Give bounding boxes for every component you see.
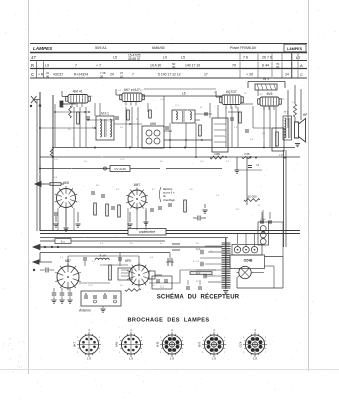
- svg-text:6 44: 6 44: [262, 64, 269, 68]
- svg-text:10: 10: [120, 75, 124, 79]
- svg-text:chauffage: chauffage: [163, 198, 175, 202]
- svg-text:24: 24: [110, 73, 114, 77]
- svg-text:45 68 47: 45 68 47: [128, 57, 141, 61]
- svg-text:L9: L9: [45, 64, 49, 68]
- svg-text:L6: L6: [182, 92, 186, 96]
- svg-text:43C37: 43C37: [53, 73, 63, 77]
- svg-text:100t: 100t: [214, 152, 220, 156]
- svg-text:OZ4B: OZ4B: [244, 259, 253, 263]
- svg-text:6Q7GT: 6Q7GT: [226, 90, 237, 94]
- svg-text:1 8: 1 8: [212, 357, 216, 361]
- svg-text:+ R: + R: [38, 73, 44, 77]
- svg-text:1 8: 1 8: [253, 357, 257, 361]
- svg-text:C 12: C 12: [88, 285, 93, 287]
- svg-text:A: A: [300, 63, 303, 68]
- svg-text:LAMPES: LAMPES: [287, 47, 303, 51]
- svg-text:SCHÉMA DU RÉCEPTEUR: SCHÉMA DU RÉCEPTEUR: [157, 293, 240, 301]
- svg-text:L5: L5: [181, 56, 185, 60]
- svg-text:LAMPES: LAMPES: [33, 46, 53, 51]
- svg-text:0,1: 0,1: [160, 286, 164, 289]
- svg-text:7: 7: [75, 64, 77, 68]
- svg-text:C: C: [300, 72, 303, 77]
- svg-text:26 7 6: 26 7 6: [262, 56, 272, 60]
- svg-text:1 8: 1 8: [87, 357, 91, 361]
- svg-text:509 A1: 509 A1: [95, 46, 107, 50]
- svg-text:1 8: 1 8: [170, 357, 174, 361]
- svg-text:L9: L9: [163, 56, 167, 60]
- svg-text:R+243X4: R+243X4: [74, 73, 88, 77]
- svg-text:BROCHAGE DES LAMPES: BROCHAGE DES LAMPES: [127, 318, 209, 324]
- svg-text:6H8: 6H8: [156, 341, 160, 347]
- svg-text:T 3: T 3: [284, 111, 289, 115]
- svg-text:6P9: 6P9: [125, 259, 131, 263]
- svg-text:+ 20: + 20: [246, 73, 253, 77]
- svg-text:6K7 et 6J7: 6K7 et 6J7: [124, 88, 140, 92]
- svg-text:6M 41: 6M 41: [73, 90, 82, 94]
- svg-text:W 1: W 1: [263, 77, 269, 81]
- svg-text:+: +: [193, 259, 195, 263]
- svg-text:10 A 30: 10 A 30: [150, 64, 161, 68]
- svg-text:C 12: C 12: [234, 127, 239, 129]
- svg-text:5 140 17 12 12: 5 140 17 12 12: [158, 73, 181, 77]
- svg-text:6H8: 6H8: [150, 122, 156, 126]
- svg-text:Poste FR/M6 AV: Poste FR/M6 AV: [230, 46, 257, 50]
- svg-text:30: 30: [276, 65, 280, 69]
- svg-text:CV 2x46: CV 2x46: [114, 167, 126, 171]
- svg-text:C: C: [31, 72, 34, 77]
- svg-text:17: 17: [204, 73, 208, 77]
- svg-text:L5: L5: [113, 56, 117, 60]
- svg-text:6 v.: 6 v.: [61, 240, 66, 244]
- svg-text:M.F.1: M.F.1: [101, 112, 109, 116]
- svg-text:C 12: C 12: [286, 119, 291, 121]
- svg-text:6N7: 6N7: [198, 341, 202, 347]
- svg-text:du: du: [163, 194, 166, 198]
- svg-text:accus 6 v.: accus 6 v.: [163, 191, 175, 195]
- svg-text:70: 70: [232, 64, 236, 68]
- svg-text:L7: L7: [296, 55, 301, 60]
- svg-text:C 12: C 12: [258, 94, 263, 96]
- svg-text:6M7: 6M7: [134, 183, 141, 187]
- svg-text:6A8: 6A8: [115, 342, 119, 348]
- svg-text:30: 30: [172, 65, 176, 69]
- svg-text:2 W: 2 W: [279, 153, 284, 157]
- svg-text:8μF: 8μF: [196, 272, 201, 275]
- svg-text:HP: HP: [303, 113, 307, 117]
- svg-text:R: R: [31, 63, 34, 68]
- svg-text:140 17 10: 140 17 10: [185, 64, 200, 68]
- svg-text:+ 7: + 7: [96, 64, 101, 68]
- svg-text:OZ4: OZ4: [239, 341, 243, 347]
- svg-text:6M6/65: 6M6/65: [152, 46, 165, 50]
- svg-text:Antenne: Antenne: [78, 309, 91, 313]
- svg-text:15.000: 15.000: [247, 195, 257, 199]
- svg-text:6V6: 6V6: [267, 92, 273, 96]
- svg-text:F.68: F.68: [245, 152, 250, 156]
- svg-text:6K7: 6K7: [73, 342, 77, 348]
- svg-text:ondemetre: ondemetre: [139, 230, 155, 234]
- svg-text:47: 47: [31, 55, 36, 60]
- svg-text:Batterie: Batterie: [163, 187, 173, 191]
- svg-text:7: 7: [132, 73, 134, 77]
- svg-text:28: 28: [100, 75, 104, 79]
- svg-text:C 12: C 12: [120, 159, 125, 161]
- svg-text:4μF: 4μF: [196, 248, 201, 251]
- svg-text:8 mH: 8 mH: [100, 254, 106, 258]
- svg-text:1 8: 1 8: [129, 357, 133, 361]
- svg-text:7 6: 7 6: [243, 56, 248, 60]
